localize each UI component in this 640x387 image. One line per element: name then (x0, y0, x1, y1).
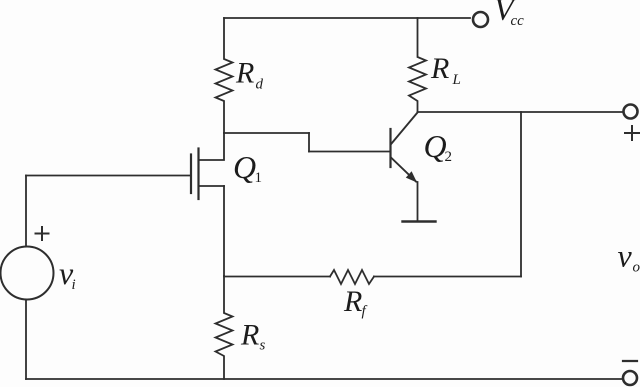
plus sign output (625, 126, 639, 140)
svg-text:2: 2 (445, 149, 453, 165)
label Vcc (494, 0, 524, 29)
svg-text:R: R (240, 319, 259, 352)
svg-text:L: L (452, 72, 461, 88)
wire feedback left (224, 276, 330, 278)
wire feedback vertical (520, 112, 522, 277)
svg-text:cc: cc (511, 13, 525, 29)
transistor Q1 (191, 133, 224, 199)
label vi (59, 255, 76, 293)
svg-text:o: o (633, 260, 640, 276)
label RL (430, 52, 461, 88)
label Rd (235, 57, 264, 93)
terminal output negative (623, 371, 637, 385)
label Q2 (424, 128, 453, 165)
minus sign output (623, 360, 637, 362)
svg-text:R: R (235, 57, 254, 90)
plus sign vi (36, 227, 49, 240)
wire step vertical (308, 133, 310, 152)
wire output (418, 111, 624, 113)
label vo (618, 238, 640, 276)
terminal Vcc (473, 12, 488, 27)
svg-text:d: d (256, 77, 264, 93)
svg-text:R: R (343, 285, 362, 318)
wire below source (25, 300, 27, 380)
svg-text:Q: Q (424, 128, 447, 164)
svg-text:v: v (618, 238, 633, 274)
transistor Q2 (391, 113, 418, 183)
svg-text:R: R (430, 52, 449, 85)
resistor RL (409, 18, 426, 112)
wire top rail (224, 17, 470, 19)
wire gate (26, 175, 190, 177)
svg-text:Q: Q (233, 149, 256, 185)
wire bottom rail (26, 378, 623, 380)
svg-text:s: s (260, 338, 266, 354)
resistor Rs (216, 276, 233, 379)
wire drain node horizontal (224, 132, 309, 134)
resistor Rd (216, 18, 233, 133)
wire base Q2 (309, 151, 390, 153)
wire source Q1 down (223, 186, 225, 276)
wire left vertical (25, 176, 27, 247)
label Rf (343, 285, 368, 320)
label Q1 (233, 149, 262, 186)
svg-text:1: 1 (255, 170, 263, 186)
wire emitter down (417, 182, 419, 221)
label Rs (240, 319, 266, 354)
ground bar (403, 220, 436, 222)
source vi (1, 247, 54, 300)
terminal output positive (624, 105, 638, 119)
resistor Rf (330, 270, 374, 284)
svg-text:i: i (72, 277, 76, 293)
wire feedback right (374, 276, 521, 278)
